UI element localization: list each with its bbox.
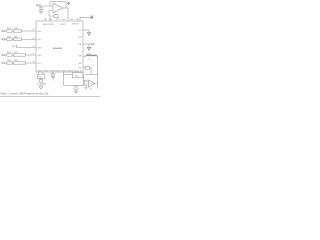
wire bbox=[4, 62, 6, 64]
svg-text:DD-: DD- bbox=[38, 63, 42, 65]
transistor Q1 bbox=[89, 80, 95, 87]
svg-text:VDD2: VDD2 bbox=[60, 24, 66, 26]
wire bbox=[85, 81, 89, 85]
resistor R7 bbox=[7, 54, 12, 56]
wire bbox=[4, 54, 6, 56]
wire stub top pin bbox=[49, 18, 51, 22]
wire bbox=[4, 30, 6, 32]
label box bbox=[73, 73, 84, 78]
svg-text:19: 19 bbox=[33, 46, 35, 48]
svg-text:14: 14 bbox=[33, 53, 35, 55]
svg-text:UD+: UD+ bbox=[38, 31, 43, 33]
svg-text:VBUS1 VDD1: VBUS1 VDD1 bbox=[43, 24, 55, 26]
resistor R4 bbox=[13, 30, 21, 32]
ground bbox=[85, 85, 88, 90]
connector J5 bbox=[83, 43, 95, 45]
resistor R10 bbox=[13, 62, 25, 64]
svg-text:VD: VD bbox=[79, 30, 82, 32]
svg-text:VB2: VB2 bbox=[76, 19, 79, 21]
connector J4 bbox=[1, 62, 5, 64]
svg-text:VB1: VB1 bbox=[44, 19, 47, 21]
svg-text:UD-: UD- bbox=[38, 39, 42, 41]
resistor R2 to ground bbox=[54, 15, 58, 18]
resistor R6 bbox=[13, 38, 21, 40]
connector J2 bbox=[1, 38, 5, 40]
IC U2 bbox=[36, 21, 83, 72]
svg-text:GD1: GD1 bbox=[56, 19, 60, 21]
svg-text:SPU: SPU bbox=[38, 47, 43, 49]
op-amp U1 bbox=[53, 3, 63, 13]
resistor R11 bbox=[83, 66, 91, 74]
regulator U3 bbox=[64, 75, 84, 86]
svg-text:24Ω: 24Ω bbox=[14, 52, 18, 54]
resistor R8 bbox=[13, 54, 25, 56]
wire bbox=[63, 72, 65, 75]
svg-text:24Ω: 24Ω bbox=[7, 52, 11, 54]
wire bbox=[97, 56, 99, 74]
capacitor C2 below IC bbox=[51, 72, 54, 78]
svg-text:GD2: GD2 bbox=[62, 19, 66, 21]
wire feedback bbox=[50, 2, 66, 8]
wire output bbox=[63, 8, 68, 21]
svg-text:21: 21 bbox=[33, 29, 35, 31]
power VCC arrow bbox=[67, 2, 70, 5]
wire top right bbox=[80, 18, 90, 21]
wire bbox=[12, 38, 13, 40]
svg-text:VD1: VD1 bbox=[49, 19, 52, 21]
resistor R3 bbox=[7, 30, 12, 32]
wire input net to op-amp bbox=[37, 5, 54, 7]
wire bbox=[25, 62, 36, 64]
svg-text:24Ω: 24Ω bbox=[7, 60, 11, 62]
capacitor C1 bbox=[39, 6, 43, 11]
resistor R5 bbox=[7, 38, 12, 40]
svg-text:24.000MHz: 24.000MHz bbox=[37, 83, 46, 85]
wire bbox=[95, 75, 98, 84]
wire bbox=[21, 38, 36, 40]
ground bbox=[74, 91, 78, 93]
wire bbox=[12, 62, 13, 64]
connector J1 bbox=[1, 30, 5, 32]
wire plus input bbox=[49, 11, 54, 17]
wire bbox=[97, 84, 99, 89]
svg-text:24Ω: 24Ω bbox=[7, 28, 11, 30]
power VDD2 arrow bbox=[83, 30, 91, 36]
inductor L1 bbox=[83, 55, 98, 56]
capacitor C9 bbox=[74, 86, 79, 92]
wire bbox=[84, 81, 89, 82]
connector X1 bbox=[90, 16, 94, 19]
wire bbox=[21, 30, 36, 32]
svg-text:20: 20 bbox=[33, 37, 35, 39]
svg-text:Q1: Q1 bbox=[90, 88, 92, 90]
wire bbox=[4, 38, 6, 40]
svg-text:DD+: DD+ bbox=[38, 55, 43, 57]
wire bbox=[12, 54, 13, 56]
svg-text:PB: PB bbox=[79, 44, 82, 46]
svg-text:GD: GD bbox=[79, 68, 83, 70]
svg-text:VB: VB bbox=[79, 55, 82, 57]
wire bbox=[25, 54, 36, 56]
wire bbox=[86, 74, 98, 76]
ground bbox=[51, 78, 54, 80]
svg-text:GD: GD bbox=[79, 63, 83, 65]
svg-text:13: 13 bbox=[33, 61, 35, 63]
wire bottom rail bbox=[0, 96, 100, 98]
svg-text:L2: L2 bbox=[89, 59, 91, 61]
wire net SPD bbox=[17, 45, 37, 48]
svg-text:VBUS2: VBUS2 bbox=[72, 24, 79, 26]
ground bbox=[39, 86, 43, 89]
crystal Y1 below IC bbox=[37, 72, 44, 86]
connector J3 bbox=[1, 54, 5, 56]
resistor R9 bbox=[7, 62, 12, 64]
svg-text:VD2: VD2 bbox=[70, 19, 73, 21]
svg-text:24Ω: 24Ω bbox=[14, 36, 18, 38]
svg-text:GN: GN bbox=[79, 37, 83, 39]
svg-text:SPD: SPD bbox=[12, 46, 16, 48]
power arrow bbox=[87, 44, 91, 51]
svg-text:24Ω: 24Ω bbox=[14, 60, 18, 62]
svg-text:600Ω: 600Ω bbox=[87, 53, 92, 55]
svg-text:5V0: 5V0 bbox=[75, 76, 78, 78]
svg-text:GND1 GND1 PDEN SPD GND2 GND2 V: GND1 GND1 PDEN SPD GND2 GND2 VDD2 G bbox=[37, 70, 82, 72]
wire bbox=[12, 30, 13, 32]
svg-text:24Ω: 24Ω bbox=[7, 36, 11, 38]
ground bbox=[39, 11, 43, 13]
svg-text:24Ω: 24Ω bbox=[14, 28, 18, 30]
svg-text:ADuM416: ADuM416 bbox=[53, 47, 63, 50]
svg-text:Figure 1. Isolated USB Periphe: Figure 1. Isolated USB Peripheral Interf… bbox=[0, 92, 49, 95]
